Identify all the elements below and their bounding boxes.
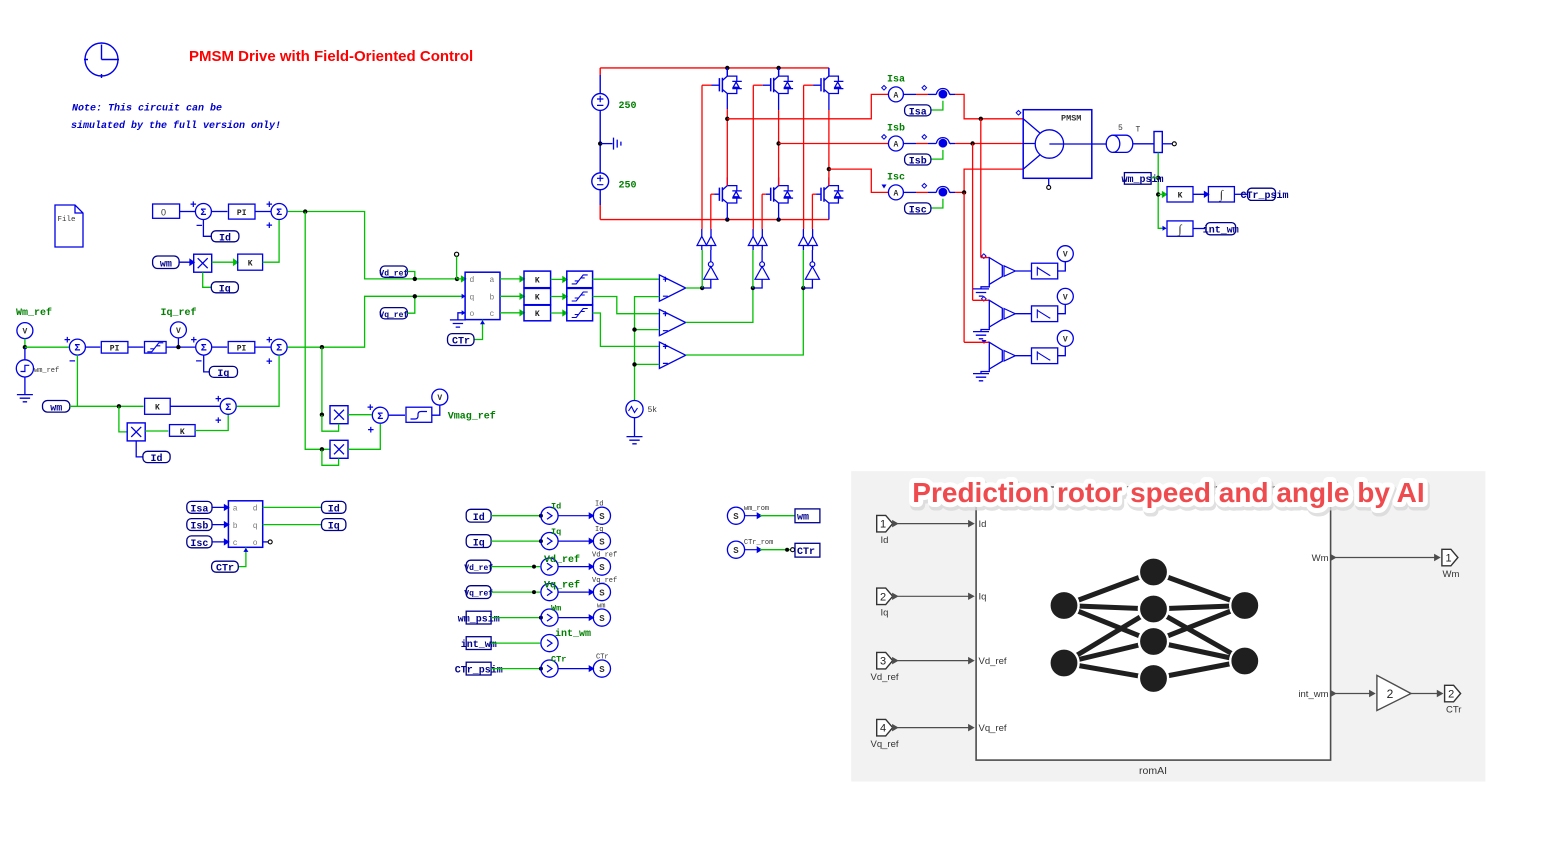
torque sensor block (1154, 132, 1176, 153)
wire (212, 539, 229, 544)
wire (558, 564, 593, 569)
junction node d (455, 277, 459, 281)
wire X4 squared feedback (322, 450, 339, 466)
svg-text:PMSM: PMSM (1061, 114, 1081, 124)
label tag CTr_psim (1240, 188, 1288, 202)
wire port1 to block (893, 521, 974, 526)
wire Vq_ref tag to q wire (407, 296, 414, 313)
summing junction S6 (191, 336, 212, 369)
svg-text:CTr: CTr (596, 653, 609, 661)
wire NOT to driver (710, 250, 712, 262)
wire c out (500, 310, 524, 315)
svg-text:Isa: Isa (887, 75, 905, 86)
output port 2 (1445, 685, 1462, 715)
wire (491, 617, 540, 619)
svg-text:PI: PI (237, 345, 247, 354)
gate driver chain leg C (799, 85, 820, 288)
wire gain to out port (1411, 691, 1442, 696)
gate driver chain leg B (748, 85, 769, 288)
wire X2 to K4 (145, 430, 168, 432)
summing junction S1 (190, 200, 211, 233)
igbt Q3 top leg C (804, 68, 844, 169)
svg-text:CTr: CTr (452, 337, 470, 348)
voltage probe Wm_ref (17, 323, 33, 339)
on-off controller inverted (706, 236, 716, 245)
junction node (962, 190, 966, 194)
gain K block (238, 254, 263, 270)
label tag Id low (143, 451, 170, 465)
wire (255, 346, 271, 348)
phase B wire to pmsm (950, 143, 955, 145)
dc source V2 250 (592, 173, 609, 190)
junction node (413, 294, 417, 298)
file block (55, 205, 83, 247)
svg-text:2: 2 (1387, 687, 1394, 701)
slink S CTr (593, 660, 610, 677)
row CTr_psim: label box CTr_psim (455, 662, 503, 676)
gain K block c (524, 305, 551, 321)
phase B wire to ammeter (779, 143, 889, 145)
svg-text:+: + (215, 416, 222, 428)
neural net input node 2 (1049, 648, 1078, 677)
svg-text:K: K (155, 404, 160, 413)
svg-text:c: c (233, 539, 238, 548)
label tag Isb (905, 154, 931, 167)
wire driver to lower gate (710, 229, 712, 250)
junction node (1156, 176, 1160, 180)
label tag wm lower (43, 401, 70, 415)
svg-text:q: q (470, 294, 475, 303)
wire (745, 513, 762, 518)
out-link int_wm (541, 635, 558, 652)
SECTION: AI panel (851, 471, 1485, 781)
transform block abc-dq0 (228, 501, 262, 548)
svg-text:Id: Id (219, 232, 231, 244)
slink S Id (593, 507, 610, 524)
svg-text:Vd_ref: Vd_ref (544, 554, 580, 566)
wire (551, 277, 567, 282)
svg-text:Vd_ref: Vd_ref (464, 564, 493, 573)
svg-text:Iq: Iq (473, 538, 485, 549)
svg-text:simulated by the full version: simulated by the full version only! (71, 120, 281, 132)
svg-text:−: − (196, 357, 203, 369)
gain K block wm (1167, 187, 1193, 202)
on-off controller direct (697, 236, 707, 245)
junction node (320, 413, 324, 417)
junction node (632, 362, 636, 366)
svg-text:∫: ∫ (1219, 188, 1224, 202)
wire down to vsense c (963, 192, 965, 342)
wire (551, 311, 567, 316)
svg-text:d: d (253, 505, 258, 514)
wire to S5 (25, 346, 69, 348)
junction node (979, 117, 983, 121)
SECTION: pmsm right (964, 110, 1288, 381)
svg-text:Vd_ref: Vd_ref (592, 551, 617, 559)
label tag Iq out (322, 519, 346, 533)
wire (1193, 192, 1209, 197)
wire (491, 540, 540, 542)
svg-text:o: o (470, 310, 475, 319)
neural net output node 2 (1230, 646, 1259, 675)
ground at o pin (450, 313, 466, 327)
comp1 output wire (686, 287, 703, 289)
comparator 3 (659, 342, 685, 368)
wire Iq tag to X1 (203, 272, 212, 287)
svg-text:c: c (490, 310, 495, 319)
wire limiter a to comp1 (593, 278, 660, 280)
wire sensor to label tag (931, 199, 943, 208)
open node o out (263, 540, 273, 544)
wire limiter b to comp2 (593, 297, 660, 314)
svg-text:250: 250 (619, 101, 637, 112)
label tag wm_psim (1121, 173, 1163, 186)
svg-text:Iq: Iq (881, 608, 889, 619)
summing junction S2 (266, 200, 287, 233)
svg-text:Vd_ref: Vd_ref (979, 656, 1007, 667)
svg-text:1: 1 (880, 519, 886, 531)
junction node (776, 66, 780, 70)
wire down to Vd squarer (305, 212, 330, 450)
wire (212, 211, 228, 213)
ground under 5k (627, 437, 643, 444)
svg-text:4: 4 (880, 723, 886, 735)
svg-text:∫: ∫ (1177, 222, 1182, 236)
wire X3 to S9 (348, 414, 372, 416)
svg-text:wm_psim: wm_psim (1121, 174, 1163, 186)
junction node leg B (751, 286, 755, 290)
svg-text:Vq_ref: Vq_ref (979, 723, 1007, 734)
wire (903, 93, 916, 95)
limiter block b (567, 288, 593, 304)
wire Id tag to S1 (203, 220, 211, 237)
constant 0 block (153, 204, 180, 218)
label tag int_wm (1203, 223, 1239, 237)
svg-text:CTr_rom: CTr_rom (744, 539, 773, 547)
wire (491, 668, 540, 670)
svg-text:K: K (535, 277, 540, 286)
svg-text:wm: wm (797, 513, 809, 524)
svg-text:wm: wm (160, 260, 172, 271)
neural net hidden node 2 (1139, 594, 1168, 623)
junction node (539, 616, 543, 620)
neural net input node 1 (1049, 591, 1078, 620)
svg-text:−: − (196, 221, 203, 233)
SECTION: bottom left abc-dq (187, 501, 346, 575)
wire CTr tag to block bottom (474, 320, 483, 340)
svg-text:5k: 5k (648, 406, 658, 415)
igbt Q6 bottom leg C (812, 169, 843, 220)
dc bus top (600, 67, 829, 69)
svg-text:Id: Id (473, 512, 485, 524)
wire int_wm to gain (1331, 691, 1375, 696)
wire K1 up to S2 (263, 220, 280, 262)
wire (903, 191, 916, 193)
label tag Iq (209, 366, 237, 380)
integrator block theta (1208, 187, 1234, 202)
wire down to X2 (119, 406, 127, 432)
voltage probe Vmag_ref (432, 389, 448, 405)
svg-text:2: 2 (1448, 689, 1454, 701)
svg-text:CTr: CTr (797, 547, 815, 558)
input port 1 (877, 515, 893, 546)
neural net hidden node 3 (1139, 627, 1168, 656)
PI block current (228, 342, 255, 354)
gain K4 block (170, 425, 196, 437)
svg-text:Vq_ref: Vq_ref (592, 577, 617, 585)
NOT gate (704, 262, 718, 280)
svg-text:Vmag_ref: Vmag_ref (448, 411, 496, 423)
probe box CTr (795, 543, 820, 558)
row Vq_ref: label tag Vq_ref (464, 586, 493, 599)
limiter block (145, 342, 167, 354)
wire dc left bottom (599, 190, 601, 205)
wire (212, 346, 227, 348)
summing junction S7 (266, 336, 287, 369)
junction node (117, 404, 121, 408)
SECTION: control row1 (153, 200, 457, 449)
wire X4 to S9 bottom (348, 424, 380, 449)
svg-text:Isc: Isc (887, 173, 905, 184)
svg-text:CTr: CTr (216, 564, 234, 575)
slink S CTr_rom (727, 541, 744, 558)
limiter block a (567, 271, 593, 288)
ammeter Isa (888, 87, 903, 102)
wire (558, 590, 593, 595)
junction node (785, 548, 789, 552)
svg-text:Id: Id (881, 535, 889, 546)
wire node to NOT (702, 279, 711, 288)
svg-text:wm: wm (50, 403, 62, 414)
wire (558, 615, 593, 620)
svg-text:+: + (64, 336, 71, 348)
wire (558, 513, 593, 518)
svg-text:Iq: Iq (328, 522, 340, 533)
svg-text:b: b (233, 522, 238, 531)
wire CTr to block bottom (238, 547, 246, 566)
svg-text:CTr: CTr (551, 654, 566, 664)
wire down to vsense a (980, 119, 982, 258)
slink S wm (593, 609, 610, 626)
svg-text:T: T (1136, 126, 1141, 135)
label tag Isa in (187, 501, 212, 515)
clock symbol (84, 43, 119, 78)
wire (491, 566, 540, 568)
wire d out to Id (263, 506, 322, 508)
junction node (539, 514, 543, 518)
ground mid (rotated) (600, 138, 621, 150)
junction node leg C (801, 286, 805, 290)
svg-text:Isa: Isa (190, 504, 208, 515)
svg-text:PMSM Drive with Field-Oriented: PMSM Drive with Field-Oriented Control (189, 48, 473, 65)
PMSM machine block (1023, 110, 1092, 190)
panel background (851, 471, 1485, 781)
out-link Vd_ref (541, 558, 558, 575)
svg-text:CTr: CTr (1446, 705, 1461, 716)
svg-text:K: K (180, 428, 185, 437)
mechanical load (1106, 135, 1154, 152)
svg-text:Vq_ref: Vq_ref (871, 739, 899, 750)
junction node (320, 447, 324, 451)
junction node (725, 66, 729, 70)
svg-text:+: + (266, 221, 273, 233)
wire a out (500, 276, 524, 281)
PI block (229, 204, 256, 219)
slink S wm_rom (727, 507, 744, 524)
summing junction S8 (215, 395, 236, 429)
wire (180, 211, 196, 213)
junction node (1156, 192, 1160, 196)
slink S Iq (593, 533, 610, 550)
label tag Vd_ref (379, 266, 408, 278)
label tag wm (153, 256, 180, 271)
limiter sat block (406, 407, 432, 422)
svg-text:Id: Id (595, 501, 603, 509)
SECTION: sampler rows (455, 501, 820, 678)
wire sensor to label tag (931, 101, 943, 110)
svg-text:−: − (69, 357, 76, 369)
voltage sensor row A (973, 246, 1073, 296)
svg-text:1: 1 (1445, 553, 1451, 565)
wire driver to upper gate (701, 229, 703, 250)
svg-text:Isb: Isb (909, 155, 927, 167)
PI block speed (101, 342, 128, 354)
svg-text:wm_rom: wm_rom (744, 505, 769, 513)
svg-text:Iq_ref: Iq_ref (161, 307, 197, 319)
wire into d pin (457, 276, 466, 281)
igbt Q2 top leg B (753, 68, 793, 144)
wire Iq tag to S6 (204, 355, 210, 372)
wire (491, 642, 540, 644)
svg-text:Id: Id (979, 519, 987, 530)
svg-text:Iq: Iq (979, 592, 987, 603)
out-link CTr (541, 660, 558, 677)
current sensor Isc (935, 187, 951, 197)
svg-text:CTr_psim: CTr_psim (455, 664, 503, 676)
SECTION: dq-abc, K, limiters, comparators, drivers (379, 85, 819, 444)
direction marker Isc (882, 185, 887, 189)
open node above dq block (455, 252, 459, 279)
comparator 2 (659, 309, 685, 335)
junction node (632, 327, 636, 331)
wire Wm to out port (1331, 555, 1440, 560)
out-link Wm (541, 609, 558, 626)
svg-text:250: 250 (619, 180, 637, 191)
svg-text:Isa: Isa (909, 107, 927, 118)
neural net edges (1064, 572, 1245, 679)
svg-text:PI: PI (237, 209, 247, 218)
wire q out to Iq (263, 524, 322, 526)
multiplier X4 (Vd squared) (330, 440, 348, 458)
svg-text:Id: Id (328, 503, 340, 515)
slink S Vq_ref (593, 584, 610, 601)
input port 2 (877, 588, 893, 619)
svg-text:Note: This circuit can be: Note: This circuit can be (72, 103, 222, 115)
wire into K (1158, 192, 1166, 197)
current sensor Isa (935, 89, 951, 99)
comp3 output wire (686, 288, 804, 355)
svg-text:Isb: Isb (887, 123, 905, 135)
wire comp node up to driver (701, 250, 703, 288)
row Vd_ref: label tag Vd_ref (464, 560, 493, 573)
wire limiter c to comp3 (593, 313, 660, 346)
neural net output node 1 (1230, 591, 1259, 620)
phase A node (725, 117, 729, 121)
triangle carrier wire (635, 297, 660, 400)
wire wm to K3 (70, 405, 144, 407)
wire S7 out to q-axis (288, 296, 465, 347)
label tag Isc (905, 203, 931, 216)
wire to Vmag probe (432, 405, 440, 415)
phase C wire to ammeter (829, 169, 889, 192)
voltage sensor row C (964, 330, 1073, 380)
junction node leg A (700, 286, 704, 290)
svg-text:+: + (266, 336, 273, 348)
wire limiter to S6 (166, 346, 195, 348)
svg-text:Iq: Iq (219, 284, 231, 295)
wire feedback wm up to S5 (76, 355, 78, 406)
svg-text:Wm: Wm (551, 603, 561, 613)
wire between sources (599, 110, 601, 172)
svg-text:Vq_ref: Vq_ref (544, 580, 580, 592)
gate driver chain leg A (697, 85, 718, 288)
svg-text:+: + (215, 395, 222, 407)
ground (17, 395, 33, 402)
ammeter Isb (888, 136, 903, 151)
svg-text:o: o (253, 539, 258, 548)
wire (491, 591, 540, 593)
svg-text:Prediction rotor speed and ang: Prediction rotor speed and angle by AI (912, 477, 1424, 508)
wire port2 to block (893, 594, 974, 599)
svg-text:Vd_ref: Vd_ref (871, 672, 899, 683)
svg-text:+: + (191, 336, 198, 348)
limiter block c (567, 305, 593, 321)
wire (558, 539, 593, 544)
wire (745, 547, 762, 552)
svg-text:Vq_ref: Vq_ref (464, 590, 493, 599)
wire (212, 505, 229, 510)
junction node (532, 565, 536, 569)
svg-text:Isc: Isc (190, 539, 208, 550)
output port 1 (1442, 549, 1460, 580)
wire sensor to label tag (931, 150, 943, 159)
input port 3 (871, 652, 899, 683)
junction node (303, 209, 307, 213)
wire (760, 549, 791, 551)
igbt Q1 top leg A (702, 68, 742, 119)
label tag Id out (322, 501, 346, 515)
SECTION: inverter (592, 66, 1023, 344)
dc source V1 250 (592, 94, 609, 111)
label tag CTr (448, 334, 475, 348)
romAI subsystem block (976, 487, 1331, 760)
svg-text:+: + (367, 403, 374, 415)
transform block dq0-abc (462, 272, 500, 319)
row wm_psim: label box wm_psim (458, 611, 500, 625)
out-link Id (541, 507, 558, 524)
svg-text:Id: Id (150, 453, 162, 465)
junction node (725, 217, 729, 221)
wire X3 squared feedback (322, 415, 339, 431)
svg-text:Vq_ref: Vq_ref (379, 311, 408, 320)
label tag Isa (905, 105, 931, 118)
polarity markers (882, 86, 1021, 302)
comp2 output wire (686, 288, 753, 322)
junction node (176, 345, 180, 349)
neural net hidden node 1 (1139, 557, 1168, 586)
svg-text:Id: Id (551, 502, 561, 512)
svg-text:Iq: Iq (595, 526, 603, 534)
